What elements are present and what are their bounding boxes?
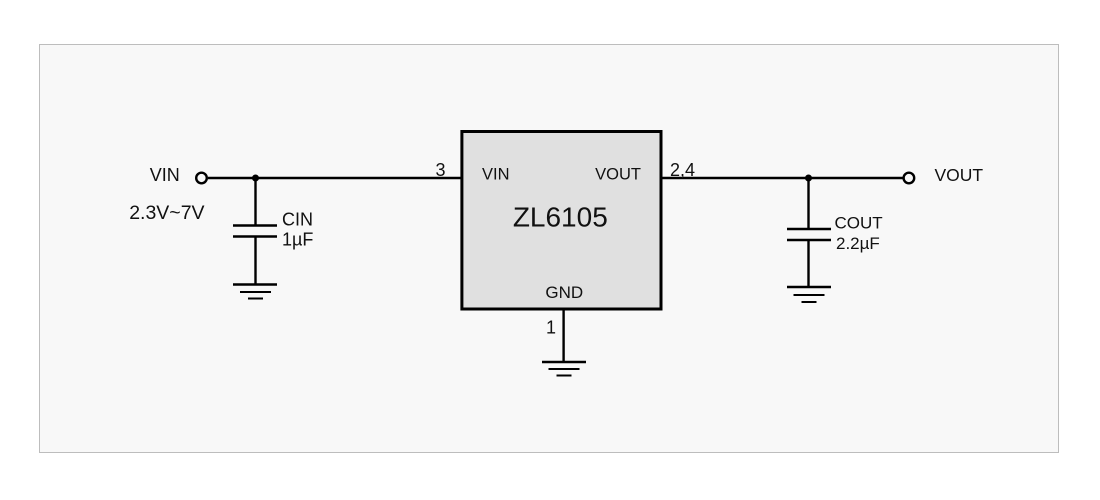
svg-text:VIN: VIN [150, 165, 180, 185]
svg-text:2,4: 2,4 [670, 160, 695, 180]
wire U1 VOUT pin to VOUT terminal [661, 177, 903, 179]
svg-text:CIN: CIN [282, 210, 313, 230]
svg-text:VOUT: VOUT [935, 165, 984, 185]
capacitor C1 CIN [233, 226, 277, 237]
svg-text:1µF: 1µF [282, 230, 313, 250]
IC U1 ZL6105 body [462, 132, 661, 310]
node VIN terminal [196, 173, 207, 184]
svg-text:ZL6105: ZL6105 [513, 202, 608, 233]
wire COUT bottom plate to ground [807, 240, 809, 287]
svg-text:GND: GND [545, 283, 583, 302]
svg-text:VIN: VIN [482, 166, 510, 184]
wire U1 GND pin to ground [562, 311, 564, 363]
svg-text:3: 3 [435, 160, 445, 180]
ground COUT [787, 287, 831, 302]
svg-text:1: 1 [546, 318, 556, 338]
wire junction to CIN top plate [254, 178, 256, 226]
junction node COUT [805, 175, 812, 182]
capacitor C2 COUT [787, 229, 831, 240]
wire junction to COUT top plate [807, 178, 809, 229]
svg-text:2.3V~7V: 2.3V~7V [129, 202, 204, 224]
junction node CIN [252, 175, 259, 182]
node VOUT terminal [904, 173, 915, 184]
wire CIN bottom plate to ground [254, 237, 256, 285]
svg-text:2.2µF: 2.2µF [836, 234, 880, 253]
svg-text:VOUT: VOUT [595, 166, 641, 184]
wire VIN terminal to U1 pin 3 [208, 177, 461, 179]
ground CIN [233, 285, 277, 299]
svg-text:COUT: COUT [835, 214, 883, 233]
ground U1 GND [542, 362, 586, 376]
